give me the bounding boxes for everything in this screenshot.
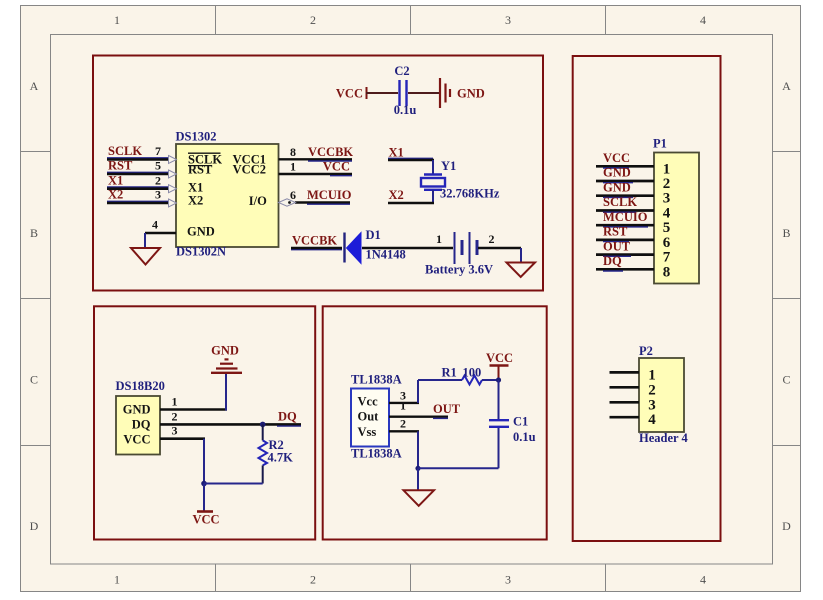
- svg-text:7: 7: [155, 144, 161, 158]
- svg-text:3: 3: [663, 191, 671, 207]
- svg-text:VCCBK: VCCBK: [292, 234, 337, 248]
- svg-text:100: 100: [463, 366, 482, 380]
- svg-text:C: C: [782, 373, 790, 387]
- svg-text:A: A: [30, 79, 39, 93]
- svg-text:C2: C2: [394, 64, 409, 78]
- capacitor C1: [489, 420, 509, 427]
- battery B1 3.6V: [455, 232, 478, 264]
- svg-text:VCC2: VCC2: [233, 163, 266, 177]
- wire VCC node to C1: [498, 380, 500, 419]
- pin 3 wire (Vcc): [389, 380, 419, 403]
- pin 8 wire (VCCBK): [279, 145, 353, 161]
- svg-text:DQ: DQ: [278, 410, 297, 424]
- wire battery to ground: [478, 248, 521, 263]
- svg-text:2: 2: [663, 176, 671, 192]
- svg-text:DS18B20: DS18B20: [116, 379, 165, 393]
- svg-text:3: 3: [172, 424, 178, 438]
- power port VCC (TL1838A): [486, 351, 513, 380]
- power port VCC (at C2): [336, 87, 367, 101]
- pin 3 wire (X2): [107, 188, 177, 207]
- pin 2 wire (X1): [107, 173, 177, 192]
- junction (Vss / ground): [415, 466, 420, 471]
- svg-text:DQ: DQ: [132, 417, 151, 431]
- svg-text:VCC: VCC: [486, 351, 513, 365]
- svg-text:Out: Out: [358, 410, 380, 424]
- svg-text:2: 2: [400, 416, 406, 430]
- svg-text:VCC: VCC: [603, 151, 630, 165]
- wire VCC node to R2: [204, 483, 263, 485]
- svg-text:3: 3: [505, 573, 511, 587]
- wire to R1: [418, 379, 462, 381]
- ground symbol (battery): [507, 263, 536, 278]
- svg-text:SCLK: SCLK: [108, 144, 142, 158]
- wire crystal to X2: [388, 190, 434, 203]
- IC TL1838A body: [351, 389, 389, 447]
- P1 pin 7 wire: [596, 250, 671, 266]
- P1 pin 1 wire: [596, 161, 670, 177]
- svg-text:D: D: [782, 519, 791, 533]
- svg-text:5: 5: [155, 159, 161, 173]
- wire VCCBK to D1: [291, 248, 342, 250]
- P2 pin 1 wire: [610, 367, 656, 383]
- svg-text:1: 1: [114, 573, 120, 587]
- svg-text:1: 1: [400, 399, 406, 413]
- pin 5 wire (RST): [107, 159, 177, 178]
- pin 1 wire (Out): [389, 399, 448, 419]
- capacitor C2: [400, 80, 407, 106]
- svg-text:3: 3: [648, 397, 656, 413]
- svg-text:GND: GND: [123, 402, 151, 416]
- svg-text:Header 4: Header 4: [639, 431, 688, 445]
- connector P1 body: [654, 153, 699, 284]
- svg-text:RST: RST: [188, 162, 213, 176]
- svg-text:32.768KHz: 32.768KHz: [440, 187, 500, 201]
- P1 pin 5 wire: [596, 220, 670, 236]
- wire D1 to battery: [362, 247, 453, 249]
- svg-text:TL1838A: TL1838A: [351, 447, 402, 461]
- svg-text:OUT: OUT: [603, 239, 631, 253]
- svg-text:Y1: Y1: [441, 159, 456, 173]
- P1 pin 2 wire: [596, 176, 670, 192]
- svg-text:X2: X2: [108, 188, 123, 202]
- crystal Y1: [421, 175, 445, 190]
- svg-text:VCC: VCC: [192, 512, 219, 526]
- svg-text:B: B: [30, 226, 38, 240]
- wire VCC node down: [203, 484, 205, 512]
- svg-text:2: 2: [489, 232, 495, 246]
- svg-text:P2: P2: [639, 344, 653, 358]
- svg-text:MCUIO: MCUIO: [603, 210, 648, 224]
- svg-text:4: 4: [700, 13, 706, 27]
- svg-text:2: 2: [310, 13, 316, 27]
- ground symbol (DS1302 pin 4): [131, 248, 160, 265]
- wire VCC to C2: [366, 92, 398, 94]
- svg-text:4.7K: 4.7K: [268, 451, 294, 465]
- svg-text:DS1302N: DS1302N: [176, 245, 226, 259]
- svg-text:3: 3: [505, 13, 511, 27]
- svg-text:DS1302: DS1302: [176, 130, 217, 144]
- svg-text:1: 1: [290, 160, 296, 174]
- wire R1 to VCC node: [482, 379, 498, 381]
- P1 pin 4 wire: [596, 206, 671, 222]
- svg-text:Battery 3.6V: Battery 3.6V: [425, 263, 493, 277]
- svg-text:GND: GND: [187, 224, 215, 238]
- ground symbol (TL1838A): [404, 490, 435, 506]
- svg-text:1: 1: [663, 161, 671, 177]
- P2 pin 4 wire: [610, 412, 657, 428]
- pin 2 wire (Vss): [389, 416, 419, 468]
- diode D1: [345, 233, 362, 264]
- svg-text:VCCBK: VCCBK: [308, 145, 353, 159]
- svg-text:2: 2: [310, 573, 316, 587]
- svg-text:OUT: OUT: [433, 402, 461, 416]
- svg-text:X2: X2: [188, 193, 203, 207]
- svg-text:Vcc: Vcc: [358, 394, 379, 408]
- pin 1 wire (VCC): [279, 160, 353, 176]
- svg-text:C: C: [30, 373, 38, 387]
- junction (VCC node): [201, 481, 207, 487]
- pin 7 wire (SCLK): [107, 144, 177, 163]
- svg-text:RST: RST: [603, 225, 628, 239]
- svg-text:GND: GND: [603, 166, 631, 180]
- svg-text:GND: GND: [603, 180, 631, 194]
- resistor R2: [259, 424, 268, 483]
- svg-text:1: 1: [436, 232, 442, 246]
- P1 pin 6 wire: [596, 235, 671, 251]
- svg-text:6: 6: [663, 235, 671, 251]
- pin 2 wire DS18B20 (DQ): [160, 410, 301, 427]
- svg-text:2: 2: [172, 410, 178, 424]
- svg-text:D1: D1: [366, 228, 381, 242]
- svg-text:B: B: [782, 226, 790, 240]
- svg-text:GND: GND: [211, 343, 239, 357]
- junction (VCC / R1 / C1): [496, 377, 501, 382]
- P2 pin 2 wire: [610, 382, 656, 398]
- svg-text:2: 2: [648, 382, 656, 398]
- svg-text:TL1838A: TL1838A: [351, 373, 402, 387]
- svg-text:VCC: VCC: [123, 432, 150, 446]
- svg-text:4: 4: [700, 573, 706, 587]
- svg-text:1: 1: [114, 13, 120, 27]
- pin 1 wire DS18B20: [160, 373, 227, 411]
- P1 pin 8 wire: [596, 264, 670, 280]
- svg-text:R1: R1: [442, 366, 457, 380]
- P1 pin 3 wire: [596, 191, 670, 207]
- svg-text:4: 4: [152, 218, 158, 232]
- pin 6 wire (MCUIO) with I/O diamond: [279, 188, 351, 206]
- junction (DQ / R2): [260, 422, 266, 428]
- svg-text:0.1u: 0.1u: [394, 103, 417, 117]
- svg-text:MCUIO: MCUIO: [307, 188, 352, 202]
- svg-text:DQ: DQ: [603, 254, 622, 268]
- svg-text:6: 6: [290, 188, 296, 202]
- svg-text:VCC: VCC: [336, 87, 363, 101]
- power port GND (DS18B20): [211, 343, 242, 372]
- svg-text:1: 1: [648, 367, 656, 383]
- svg-text:Vss: Vss: [358, 425, 377, 439]
- svg-text:I/O: I/O: [249, 194, 267, 208]
- svg-text:SCLK: SCLK: [603, 195, 637, 209]
- svg-text:C1: C1: [513, 415, 528, 429]
- IC DS1302 body: [176, 144, 279, 247]
- svg-text:1N4148: 1N4148: [366, 248, 406, 262]
- svg-text:GND: GND: [457, 87, 485, 101]
- svg-text:7: 7: [663, 250, 671, 266]
- svg-text:3: 3: [155, 188, 161, 202]
- pin 3 wire DS18B20 (VCC): [160, 424, 205, 484]
- svg-text:D: D: [30, 519, 39, 533]
- svg-text:5: 5: [663, 220, 671, 236]
- svg-text:P1: P1: [653, 137, 667, 151]
- svg-text:2: 2: [155, 173, 161, 187]
- connector P2 body: [639, 358, 684, 432]
- svg-text:A: A: [782, 79, 791, 93]
- power port VCC (DS18B20): [192, 512, 219, 527]
- svg-text:X1: X1: [389, 146, 404, 160]
- wire ground node to C1: [418, 467, 499, 469]
- resistor R1: [462, 376, 482, 385]
- IC DS18B20 body: [116, 396, 160, 455]
- wire C2 to GND: [408, 92, 439, 94]
- wire C1 to bottom: [498, 428, 500, 468]
- svg-text:X2: X2: [389, 188, 404, 202]
- svg-text:RST: RST: [108, 159, 133, 173]
- svg-text:4: 4: [648, 412, 656, 428]
- svg-text:X1: X1: [108, 173, 123, 187]
- svg-text:4: 4: [663, 206, 671, 222]
- wire X1 to crystal: [388, 158, 434, 174]
- pin 4 wire (GND): [145, 218, 176, 248]
- svg-text:8: 8: [290, 145, 296, 159]
- svg-text:VCC: VCC: [323, 160, 350, 174]
- P2 pin 3 wire: [610, 397, 656, 413]
- power port GND (at C2): [440, 78, 485, 108]
- wire ground node down: [417, 468, 419, 490]
- svg-text:1: 1: [172, 395, 178, 409]
- svg-text:0.1u: 0.1u: [513, 430, 536, 444]
- svg-text:X1: X1: [188, 180, 203, 194]
- svg-text:8: 8: [663, 264, 671, 280]
